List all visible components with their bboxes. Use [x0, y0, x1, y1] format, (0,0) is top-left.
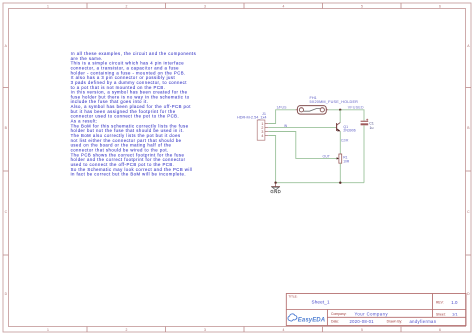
svg-text:Sheet:: Sheet: [436, 312, 446, 316]
svg-text:Date:: Date: [331, 320, 339, 324]
svg-text:REV:: REV: [436, 301, 444, 305]
junction at GND tap [274, 182, 276, 184]
wire pin1 to fuse [268, 110, 295, 124]
svg-text:Drawn By:: Drawn By: [387, 320, 403, 324]
wire R1 to bottom rail [339, 163, 341, 183]
svg-text:4: 4 [283, 328, 285, 332]
wire C1 to bottom rail [363, 125, 365, 182]
wire Q1 collector to R1 [339, 131, 341, 154]
svg-text:1.0: 1.0 [451, 300, 458, 305]
J1 pin 3 [261, 130, 268, 134]
bottom ground rail wire [276, 182, 364, 184]
J1 pin 4 [261, 134, 268, 138]
svg-text:2N3906: 2N3906 [343, 129, 355, 133]
ground [270, 183, 281, 194]
wire fuse to corner (VFUSED rail) [328, 110, 364, 121]
svg-text:3: 3 [204, 328, 206, 332]
J1 pin 1 [261, 122, 268, 126]
capacitor C1 [361, 119, 374, 130]
svg-text:3: 3 [204, 4, 206, 8]
svg-text:andyfierman: andyfierman [410, 319, 437, 324]
junction at Q1 emitter / top rail [339, 109, 341, 111]
svg-text:1: 1 [47, 4, 49, 8]
connector J1 [237, 112, 267, 140]
svg-text:2020-08-01: 2020-08-01 [350, 319, 375, 324]
svg-text:1/1: 1/1 [452, 312, 458, 317]
svg-text:OUT: OUT [323, 155, 331, 159]
fuse holder FH1 [296, 96, 359, 114]
svg-text:4: 4 [283, 4, 285, 8]
resistor (pot) R1 [337, 154, 350, 163]
svg-text:1/FUS: 1/FUS [277, 105, 288, 109]
svg-text:EasyEDA: EasyEDA [298, 318, 325, 324]
wire pin3 to R1 wiper [268, 132, 337, 159]
svg-text:VFUSED: VFUSED [348, 105, 364, 109]
schematic note text [71, 51, 197, 177]
svg-text:Sheet_1: Sheet_1 [312, 300, 330, 305]
svg-text:Your Company: Your Company [355, 311, 389, 316]
svg-text:Company:: Company: [331, 312, 347, 316]
svg-text:C2/R: C2/R [341, 138, 349, 142]
svg-text:5: 5 [361, 328, 363, 332]
svg-text:TITLE:: TITLE: [289, 294, 298, 298]
svg-text:5: 5 [361, 4, 363, 8]
svg-text:6: 6 [439, 328, 441, 332]
svg-text:1u: 1u [370, 126, 374, 130]
wire top rail to Q1 emitter [339, 110, 341, 123]
svg-text:6: 6 [439, 4, 441, 8]
svg-text:10R: 10R [343, 159, 350, 163]
svg-text:5X20MM_FUSE_HOLDER: 5X20MM_FUSE_HOLDER [310, 100, 359, 104]
svg-text:in fact be correct but the BoM: in fact be correct but the BoM will be i… [71, 172, 186, 177]
J1 pin 2 [261, 126, 268, 130]
svg-text:C1: C1 [369, 121, 374, 125]
transistor Q1 [336, 123, 356, 133]
svg-text:4: 4 [261, 134, 263, 138]
svg-text:1: 1 [47, 328, 49, 332]
svg-text:2: 2 [126, 4, 128, 8]
junction at R1 / bottom rail [339, 182, 341, 184]
wire pin4 to ground rail [268, 136, 275, 183]
wire pin2 to Q1 base [268, 127, 336, 129]
svg-text:2: 2 [126, 328, 128, 332]
svg-text:HDR-M-2.54_1x4: HDR-M-2.54_1x4 [237, 116, 267, 120]
EasyEDA logo [288, 314, 325, 324]
svg-text:GND: GND [270, 189, 281, 194]
svg-text:IN: IN [284, 124, 288, 128]
title block [286, 294, 466, 326]
